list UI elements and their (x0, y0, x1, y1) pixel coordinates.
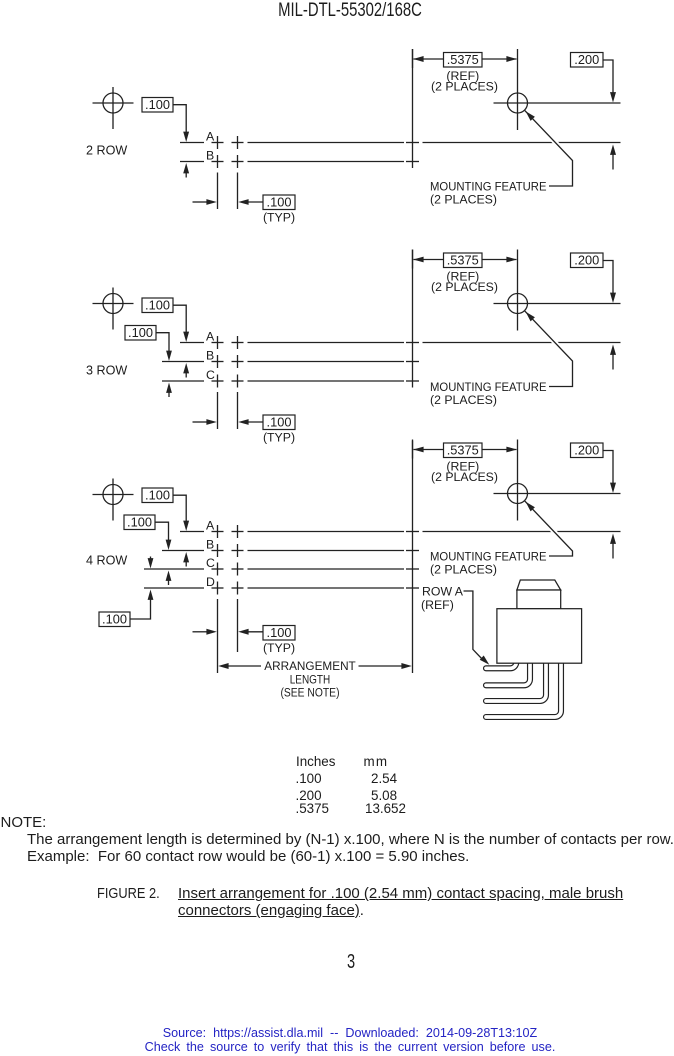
mounting feature circle, 2 ROW (494, 49, 621, 130)
dimension box .100 (rows C-D), 4 ROW (99, 590, 153, 627)
dimension box .200, 3 ROW (571, 253, 617, 303)
footer line 2 (145, 1040, 556, 1054)
connector pin 2 (row B) (486, 660, 530, 685)
svg-text:C: C (206, 368, 215, 382)
contact cross marks row B, 4 ROW (212, 544, 420, 557)
document title (278, 0, 422, 22)
connector pin 3 (row C) (486, 660, 546, 701)
main vertical extension line, 2 ROW (412, 49, 414, 168)
extension lines for .100 TYP dimension, 3 ROW (218, 392, 238, 429)
svg-text:.100: .100 (145, 298, 170, 313)
contact cross marks row B, 2 ROW (212, 155, 420, 168)
.100 (TYP) dimension, 2 ROW (193, 195, 296, 225)
.100 (TYP) dimension, 3 ROW (193, 415, 296, 445)
mounting feature circle, 4 ROW (494, 440, 621, 521)
svg-text:MOUNTING FEATURE: MOUNTING FEATURE (430, 180, 547, 194)
note block (1, 814, 47, 831)
svg-text:A: A (206, 130, 215, 144)
svg-text:ROW A: ROW A (422, 585, 464, 599)
conversion table (296, 754, 335, 769)
.5375 (REF) dimension, 2 ROW (413, 49, 517, 94)
svg-text:.100: .100 (267, 625, 292, 640)
contact cross marks row B, 3 ROW (212, 355, 420, 368)
page number (346, 951, 354, 974)
connector neck (517, 590, 561, 609)
svg-text:.100: .100 (102, 612, 127, 627)
svg-text:B: B (206, 149, 214, 163)
dimension box .200, 4 ROW (571, 443, 617, 493)
svg-text:4 ROW: 4 ROW (86, 554, 127, 568)
dimension box .100 (rows B-C), 4 ROW (124, 515, 171, 550)
up arrow below row (rows B-C lower), 3 ROW (166, 383, 172, 398)
main vertical extension line, 4 ROW (412, 441, 414, 674)
svg-text:.5375: .5375 (447, 443, 479, 458)
svg-text:(REF): (REF) (421, 598, 454, 612)
svg-text:(TYP): (TYP) (263, 431, 295, 445)
svg-text:.100: .100 (128, 325, 153, 340)
footer line 1 (163, 1026, 538, 1040)
svg-text:C: C (206, 556, 215, 570)
svg-text:.100: .100 (145, 488, 170, 503)
svg-text:3 ROW: 3 ROW (86, 364, 127, 378)
leader MOUNTING FEATURE, 2 ROW (525, 110, 573, 186)
.5375 (REF) dimension, 4 ROW (413, 440, 517, 485)
svg-text:(2 PLACES): (2 PLACES) (430, 563, 497, 577)
svg-text:.200: .200 (574, 253, 599, 268)
svg-text:(2 PLACES): (2 PLACES) (430, 393, 497, 407)
extension lines for .100 TYP dimension, 2 ROW (218, 173, 238, 210)
svg-text:LENGTH: LENGTH (290, 673, 331, 687)
row A line, 3 ROW (180, 342, 621, 344)
connector body (497, 609, 582, 664)
up arrow below row (rows A-B lower), 3 ROW (183, 363, 189, 378)
row B line, 4 ROW (162, 550, 404, 552)
svg-text:(2 PLACES): (2 PLACES) (431, 470, 498, 484)
label ROW A (REF) with leader to pin 1 (421, 585, 489, 665)
svg-text:2 ROW: 2 ROW (86, 144, 127, 158)
contact cross marks row A, 4 ROW (212, 525, 420, 538)
svg-text:B: B (206, 349, 214, 363)
.5375 (REF) dimension, 3 ROW (413, 250, 517, 295)
svg-text:.100: .100 (267, 195, 292, 210)
figure caption (97, 885, 160, 902)
row C line, 3 ROW (162, 380, 404, 382)
dimension box .100 (rows A-B), 4 ROW (142, 488, 189, 531)
up arrow below row (rows A-B lower), 2 ROW (183, 163, 189, 178)
up arrow .200 to row A, 3 ROW (610, 345, 616, 370)
svg-text:(2 PLACES): (2 PLACES) (431, 280, 498, 294)
svg-text:(TYP): (TYP) (263, 211, 295, 225)
svg-text:ARRANGEMENT: ARRANGEMENT (264, 659, 356, 673)
dimension box .100 (rows A-B), 3 ROW (142, 298, 189, 342)
svg-text:B: B (206, 538, 214, 552)
svg-text:.100: .100 (145, 97, 170, 112)
leader MOUNTING FEATURE, 3 ROW (525, 311, 573, 387)
svg-text:MOUNTING FEATURE: MOUNTING FEATURE (430, 380, 547, 394)
svg-text:.5375: .5375 (447, 52, 479, 67)
leader MOUNTING FEATURE, 4 ROW (525, 501, 573, 556)
up arrow .200 to row A, 4 ROW (610, 534, 616, 559)
svg-text:(TYP): (TYP) (263, 641, 295, 655)
svg-text:.200: .200 (574, 443, 599, 458)
datum target crosshair, 3 ROW diagram (93, 288, 134, 330)
svg-text:.100: .100 (267, 415, 292, 430)
extension lines for .100 TYP dimension, 4 ROW (218, 599, 238, 673)
svg-text:.5375: .5375 (447, 253, 479, 268)
datum target crosshair, 2 ROW diagram (93, 87, 134, 129)
ARRANGEMENT LENGTH dimension, 4 ROW (218, 659, 412, 700)
dimension box .200, 2 ROW (571, 52, 617, 102)
connector cap (517, 580, 561, 590)
row B line, 3 ROW (162, 361, 404, 363)
contact cross marks row C, 3 ROW (212, 375, 420, 388)
contact cross marks row A, 2 ROW (212, 136, 420, 149)
.100 (TYP) dimension, 4 ROW (193, 625, 296, 655)
svg-text:A: A (206, 330, 215, 344)
svg-text:D: D (206, 575, 215, 589)
datum target crosshair, 4 ROW diagram (93, 479, 134, 521)
up arrow below row (rows B-C lower), 4 ROW (166, 571, 172, 586)
contact cross marks row C, 4 ROW (212, 563, 420, 576)
up arrow below row (rows A-B lower), 4 ROW (183, 552, 189, 567)
row A line, 4 ROW (180, 531, 621, 533)
dimension box .100 (rows B-C), 3 ROW (125, 325, 172, 361)
connector pin 4 (row D) (486, 660, 561, 717)
contact cross marks row A, 3 ROW (212, 336, 420, 349)
row B line, 2 ROW (180, 161, 404, 163)
svg-text:(2 PLACES): (2 PLACES) (431, 80, 498, 94)
svg-text:(SEE NOTE): (SEE NOTE) (281, 686, 340, 700)
main vertical extension line, 3 ROW (412, 250, 414, 388)
svg-text:MOUNTING FEATURE: MOUNTING FEATURE (430, 550, 547, 564)
connector pin 1 (row A) (486, 660, 516, 668)
mounting feature circle, 3 ROW (494, 250, 621, 331)
dimension box .100 (rows A-B), 2 ROW (142, 97, 189, 142)
row A line, 2 ROW (180, 142, 621, 144)
down arrow to row C (rows C-D spacing), 4 ROW (148, 557, 154, 569)
svg-text:.100: .100 (127, 515, 152, 530)
svg-text:(2 PLACES): (2 PLACES) (430, 193, 497, 207)
up arrow .200 to row A, 2 ROW (610, 145, 616, 170)
row D line, 4 ROW (144, 587, 404, 589)
svg-text:.200: .200 (574, 52, 599, 67)
svg-text:A: A (206, 519, 215, 533)
row C line, 4 ROW (144, 568, 404, 570)
contact cross marks row D, 4 ROW (212, 582, 420, 595)
